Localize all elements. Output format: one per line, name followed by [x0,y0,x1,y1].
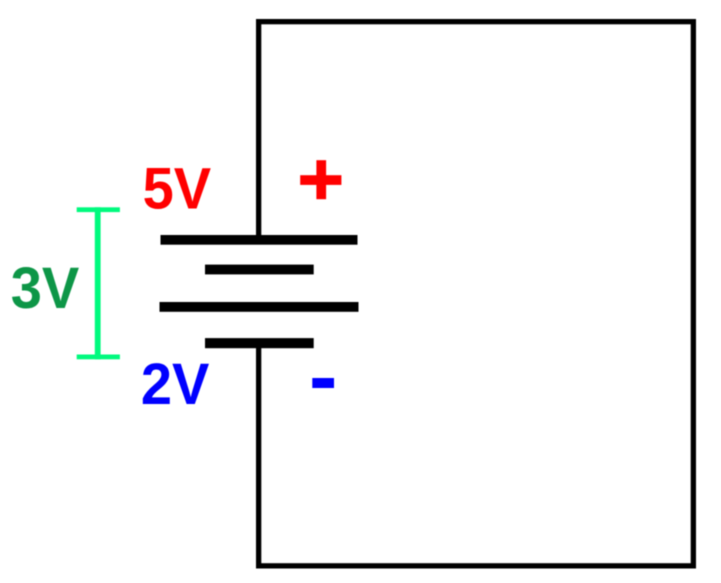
wire left lower (negative lead) [256,346,261,569]
minus terminal marker [312,378,334,388]
svg-text:2V: 2V [141,352,209,417]
plus terminal marker [300,160,341,199]
svg-text:5V: 5V [143,157,211,222]
battery B1 plate 3 (long) [160,302,359,312]
wire right [691,19,696,569]
battery B1 plate 1 (long, positive) [161,235,358,245]
svg-text:3V: 3V [11,256,79,321]
wire bottom [256,563,696,568]
battery B1 plate 2 (short) [205,265,314,275]
wire top [256,19,696,24]
wire left upper (positive lead) [256,19,261,237]
battery B1 plate 4 (short, negative) [205,338,314,348]
measurement bracket (3V span) [77,207,120,359]
